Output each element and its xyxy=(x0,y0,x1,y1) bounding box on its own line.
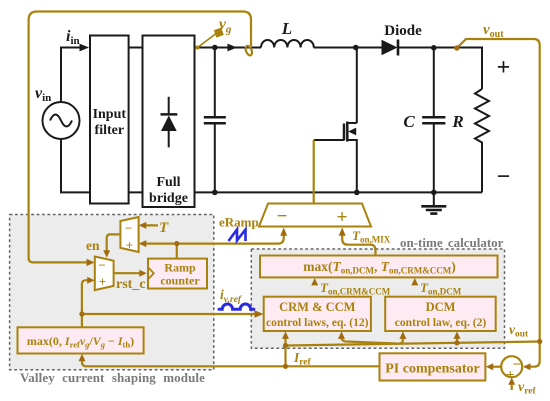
mosfet arrow xyxy=(348,128,356,136)
node dot C top xyxy=(431,45,437,51)
svg-text:+: + xyxy=(506,368,515,384)
svg-text:−: − xyxy=(125,221,132,236)
bridge diode xyxy=(161,97,178,148)
svg-text:eRamp: eRamp xyxy=(219,215,259,230)
arrow on wire after bridge xyxy=(228,44,238,52)
arrow into CRM left (i_v,ref) xyxy=(255,310,264,318)
svg-text:Full: Full xyxy=(156,175,180,190)
wire: comp2 out to ramp counter xyxy=(114,272,140,274)
svg-text:−: − xyxy=(98,258,105,273)
svg-text:Valley current shaping module: Valley current shaping module xyxy=(20,370,205,385)
wire: vref stub xyxy=(511,384,513,390)
wire: gate drive vertical xyxy=(313,140,315,203)
wire: Iref vertical to CRM xyxy=(284,335,286,367)
arrow into eRamp plus xyxy=(339,228,346,236)
svg-text:T: T xyxy=(159,220,169,236)
output capacitor C xyxy=(422,48,445,192)
ground xyxy=(421,192,446,213)
eRamp trapezoid xyxy=(259,204,371,227)
vg probe square xyxy=(214,28,224,38)
wire: Ton,MIX xyxy=(342,231,375,256)
svg-text:Input: Input xyxy=(93,107,127,122)
arrow T into comp1 minus xyxy=(139,222,147,229)
wire: ramp bus to eRamp minus xyxy=(141,231,284,244)
junction dots orange xyxy=(174,241,179,246)
capacitor after bridge xyxy=(204,48,226,193)
CRM box xyxy=(264,297,371,331)
blue sine icon xyxy=(219,304,254,309)
source vin circle xyxy=(43,102,80,139)
svg-text:DCM: DCM xyxy=(426,300,456,314)
node dot mosfet drain xyxy=(353,45,359,51)
mosfet Q xyxy=(314,48,357,193)
arrow into DCM bottom left xyxy=(399,331,406,339)
wire: top link filter to bridge xyxy=(129,47,143,49)
wire: DCM right branch xyxy=(456,335,458,343)
wire: comp1 out to en xyxy=(107,234,121,251)
wire: comp2 plus input from max output xyxy=(82,280,89,327)
wire: Iref line xyxy=(82,357,380,366)
svg-text:max(0, Irefvg/Vg − Ith): max(0, Irefvg/Vg − Ith) xyxy=(27,334,134,350)
on-time calculator dashed box xyxy=(251,249,504,348)
inductor L xyxy=(261,40,314,48)
resistor R zigzag xyxy=(475,89,489,192)
arrow into eRamp minus xyxy=(280,228,287,236)
svg-text:−: − xyxy=(497,164,511,190)
svg-text:bridge: bridge xyxy=(149,191,188,206)
wire: vg probe diagonal xyxy=(198,34,216,48)
svg-text:on-time calculator: on-time calculator xyxy=(400,235,504,250)
arrow into comp2 minus xyxy=(87,259,95,266)
svg-text:C: C xyxy=(403,112,415,131)
input filter box xyxy=(90,36,129,204)
node dot mosfet source rail xyxy=(354,190,360,196)
svg-text:+: + xyxy=(126,238,133,253)
arrow into max box from CRM xyxy=(311,278,318,285)
node dot cap top xyxy=(212,45,218,51)
svg-text:−: − xyxy=(277,206,288,227)
arrow into max0 box bottom xyxy=(79,354,86,361)
arrow into ramp counter clk xyxy=(139,270,147,277)
arrow i_in xyxy=(80,44,90,52)
PI compensator box xyxy=(380,353,486,380)
svg-text:L: L xyxy=(281,19,292,38)
max(Ton) box xyxy=(260,256,498,278)
wire: bottom rail xyxy=(61,139,482,192)
wire: top wire bridge to inductor xyxy=(195,47,262,49)
arrow into summing from vout xyxy=(523,363,531,370)
full bridge box xyxy=(143,36,195,208)
wire: vout sense top xyxy=(457,39,540,367)
arrow into CRM bottom left xyxy=(282,331,289,339)
svg-text:rst_c: rst_c xyxy=(116,277,146,292)
blue ramp icon xyxy=(229,230,246,242)
svg-text:control laws, eq. (12): control laws, eq. (12) xyxy=(266,316,369,329)
DCM box xyxy=(385,297,496,331)
wire: diode to output node and R corner xyxy=(399,48,482,90)
svg-text:PI compensator: PI compensator xyxy=(385,362,480,377)
ramp counter box xyxy=(148,259,207,289)
arrow into DCM bottom right xyxy=(454,331,461,339)
comparator comp2 (valley) xyxy=(95,257,114,291)
node dot cap bottom xyxy=(212,190,218,196)
arrow en into comp2 xyxy=(103,250,110,257)
svg-text:counter: counter xyxy=(160,274,200,288)
arrow into comp1 plus xyxy=(139,240,147,247)
sine inside vin xyxy=(50,115,72,127)
svg-text:CRM & CCM: CRM & CCM xyxy=(279,300,356,314)
arrow into max box from DCM xyxy=(411,278,418,285)
svg-text:Diode: Diode xyxy=(384,23,422,39)
valley current shaping module dashed box xyxy=(10,215,214,370)
svg-text:control law, eq. (2): control law, eq. (2) xyxy=(395,316,487,329)
svg-text:Ramp: Ramp xyxy=(164,261,196,275)
wire: vout feedback P line xyxy=(286,342,540,346)
diode xyxy=(382,40,398,55)
arrow into PI from summing xyxy=(486,363,493,370)
wire: vg sense rail around top-left down to comparator minus xyxy=(29,12,251,263)
summing junction xyxy=(501,356,522,377)
arrow into CRM bottom right xyxy=(338,331,345,339)
node dot ground rail xyxy=(431,190,437,196)
hook loop at vg tap xyxy=(244,45,253,56)
wire: summing to PI xyxy=(492,366,501,368)
wire: i_v,ref line xyxy=(82,313,257,315)
svg-text:+: + xyxy=(99,274,106,289)
svg-text:+: + xyxy=(497,55,511,81)
svg-text:+: + xyxy=(337,207,348,228)
svg-text:R: R xyxy=(451,112,463,131)
wire: T stub xyxy=(141,224,158,226)
wire: ramp counter top branch xyxy=(176,244,178,259)
wire: inductor to diode xyxy=(314,47,382,49)
comparator comp1 (period T) xyxy=(120,217,138,252)
wire: U jumper CRM/DCM arrows xyxy=(342,335,403,344)
arrow vref into summing xyxy=(508,377,515,384)
max0 box xyxy=(18,327,144,353)
wire: vin top riser and top feed into input filter xyxy=(61,48,87,103)
svg-text:filter: filter xyxy=(95,123,125,138)
arrow into comp2 plus xyxy=(87,277,94,284)
svg-text:en: en xyxy=(86,238,100,253)
